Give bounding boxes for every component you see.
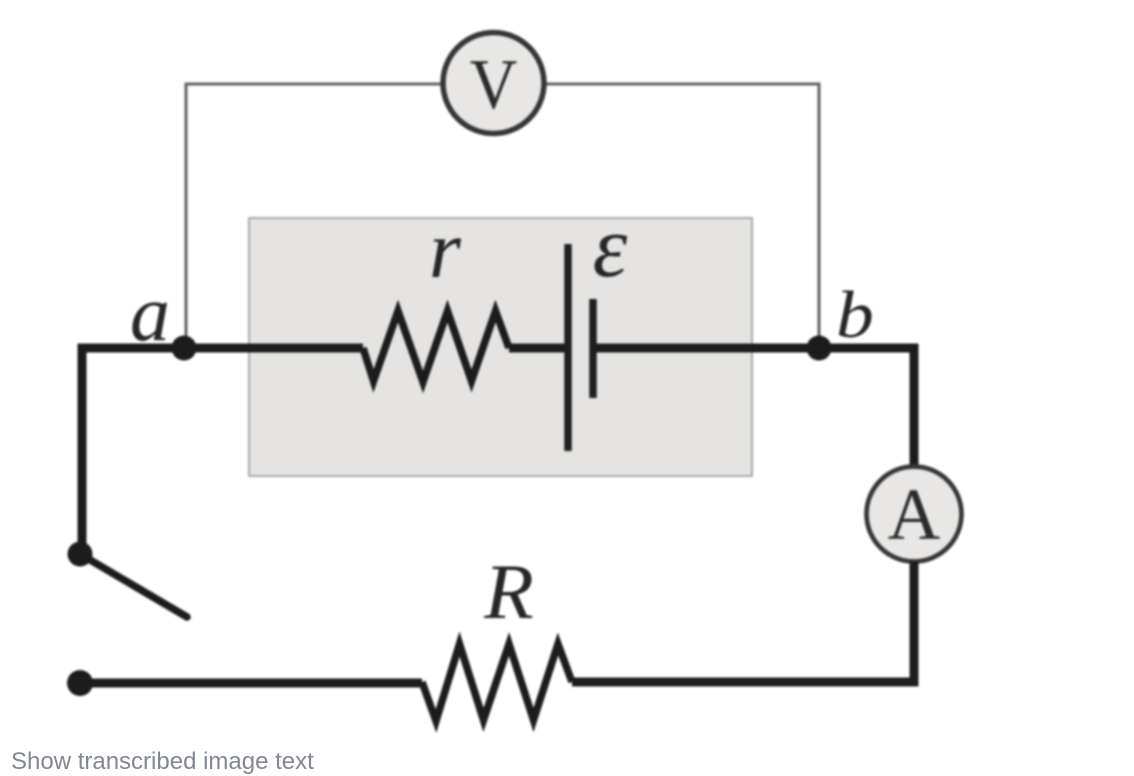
switch pivot dot (68, 542, 93, 567)
resistor R (422, 644, 572, 721)
wire ammeter to bottom corner (572, 562, 914, 682)
wire top-left from corner to resistor r (82, 348, 363, 352)
switch blade (open) (80, 554, 187, 617)
node b dot (807, 336, 832, 361)
battery box (internal source region) (249, 218, 752, 476)
wire resistor r to battery (509, 344, 566, 353)
svg-text:V: V (470, 45, 518, 124)
bottom-left terminal dot (67, 670, 93, 696)
svg-text:R: R (483, 549, 534, 635)
wire left side down to switch (78, 348, 87, 554)
node a dot (172, 336, 197, 361)
svg-text:A: A (888, 474, 941, 555)
wire resistor R to bottom-left terminal (80, 679, 422, 688)
ammeter A (867, 467, 962, 562)
wire voltmeter thin loop (186, 84, 819, 348)
svg-text:b: b (836, 278, 874, 352)
resistor r (363, 311, 509, 382)
battery short plate (589, 299, 597, 398)
svg-text:a: a (130, 270, 170, 358)
partial "Show transcribed image text" caption clipped at bottom (11, 748, 314, 776)
voltmeter V (443, 33, 544, 134)
wire battery to node b and down right side (596, 348, 914, 466)
svg-text:ε: ε (593, 199, 628, 296)
svg-text:r: r (429, 204, 462, 295)
battery long plate (564, 244, 572, 451)
